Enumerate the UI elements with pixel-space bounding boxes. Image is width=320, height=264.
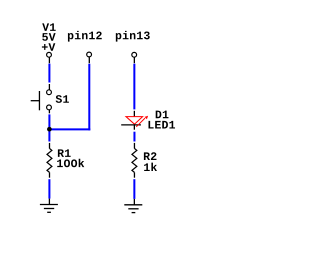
node pin12 label bbox=[68, 31, 102, 42]
terminal pin12 bbox=[87, 52, 92, 57]
V1 net +V bbox=[42, 43, 55, 51]
diode value LED1 bbox=[149, 121, 176, 129]
resistor R2 label bbox=[144, 152, 157, 160]
wire pin13 to D1 (blue) bbox=[133, 64, 135, 110]
V1 value 5V bbox=[42, 33, 55, 41]
pin stub below V1 terminal bbox=[48, 57, 50, 63]
wire R2 to ground (blue) bbox=[133, 179, 135, 199]
LED D1 light arrow bbox=[136, 116, 148, 127]
ground stub left bbox=[48, 199, 50, 205]
resistor R1 zigzag bbox=[47, 148, 52, 172]
diode D1 label bbox=[156, 111, 169, 119]
R1 top stub bbox=[49, 143, 51, 149]
wire junction to pin12 corner (blue) bbox=[49, 128, 90, 130]
wire junction to R1 (blue) bbox=[48, 129, 50, 141]
R1 value 100k bbox=[57, 159, 84, 167]
junction node dot bbox=[47, 127, 52, 132]
R2 bottom stub bbox=[133, 172, 135, 177]
switch S1 push rod bbox=[31, 100, 40, 102]
resistor R2 zigzag bbox=[132, 148, 137, 172]
voltage source V1 label bbox=[42, 23, 55, 31]
terminal V1 (+V) bbox=[47, 52, 52, 57]
node pin13 label bbox=[116, 31, 150, 42]
pin stub below S1 bbox=[48, 110, 50, 113]
switch S1 actuator bar bbox=[38, 91, 40, 110]
R2 top stub bbox=[133, 143, 135, 149]
LED D1 cathode bar bbox=[121, 124, 141, 126]
ground symbol left bbox=[40, 205, 58, 213]
resistor R1 label bbox=[58, 149, 71, 157]
D1 cathode stub bbox=[133, 125, 135, 130]
wire S1 to junction (blue) bbox=[48, 114, 50, 129]
wire pin12 vertical (blue) bbox=[88, 64, 90, 131]
switch S1 label bbox=[56, 95, 69, 103]
switch S1 bottom terminal bbox=[47, 105, 52, 110]
pin stub below pin12 terminal bbox=[88, 57, 90, 63]
ground stub right bbox=[133, 199, 135, 205]
wire D1 to R2 (blue) bbox=[133, 132, 135, 142]
terminal pin13 bbox=[132, 52, 137, 57]
R1 bottom stub bbox=[49, 172, 51, 177]
pin stub below pin13 terminal bbox=[133, 57, 135, 63]
D1 anode stub bbox=[133, 111, 135, 117]
pin stub above S1 bbox=[48, 84, 50, 90]
LED D1 triangle bbox=[126, 117, 143, 125]
wire R1 to ground (blue) bbox=[48, 179, 50, 198]
ground symbol right bbox=[124, 205, 142, 213]
switch S1 top terminal bbox=[47, 90, 52, 95]
wire V1 to S1 (blue) bbox=[48, 64, 50, 83]
R2 value 1k bbox=[144, 163, 157, 171]
